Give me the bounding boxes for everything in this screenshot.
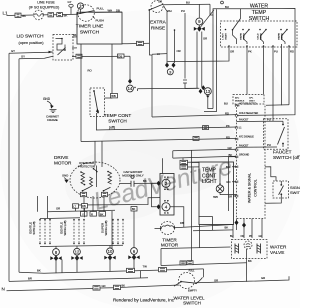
- motor bottom leads: [84, 196, 104, 212]
- wire lid out top BK: [72, 36, 77, 38]
- svg-text:GR: GR: [259, 235, 263, 238]
- svg-text:VALVE: VALVE: [270, 250, 284, 255]
- svg-text:FRAME: FRAME: [47, 118, 58, 122]
- tiny circled junction: [221, 1, 224, 4]
- connector boxes on bus: [127, 268, 135, 272]
- bank second bus: [40, 217, 80, 220]
- svg-text:MOTOR: MOTOR: [161, 243, 179, 248]
- terminal 2 (circled): [162, 179, 170, 187]
- column 6: [133, 211, 135, 248]
- water valve dashed box: [232, 240, 268, 259]
- svg-text:OR: OR: [230, 50, 234, 54]
- wire from control right: [265, 167, 276, 177]
- signal contacts: [280, 184, 282, 186]
- terminal 14 (circled): [127, 85, 134, 92]
- riser feeds: [76, 208, 113, 248]
- wire L1 to connector: [7, 14, 16, 16]
- wire from WTS OR terminal: [168, 49, 230, 62]
- svg-text:RINSE: RINSE: [282, 33, 284, 40]
- svg-text:WASH: WASH: [243, 33, 246, 40]
- svg-text:GY: GY: [11, 49, 15, 53]
- fuse F1 (dashed circle): [34, 10, 44, 20]
- svg-text:LIGHT: LIGHT: [202, 179, 217, 185]
- connector boxes stacked: [182, 158, 184, 160]
- svg-text:GR: GR: [203, 37, 207, 41]
- svg-text:BK: BK: [73, 33, 77, 37]
- long right vertical: [229, 157, 237, 211]
- boxed label on bus A: [203, 126, 209, 130]
- svg-text:BU: BU: [230, 235, 234, 238]
- watermark: [91, 152, 236, 216]
- svg-text:MODELS: MODELS: [235, 101, 245, 103]
- svg-text:ATC DISABLE: ATC DISABLE: [239, 136, 254, 139]
- svg-text:TW: TW: [143, 265, 148, 269]
- svg-text:Y: Y: [82, 212, 84, 216]
- svg-text:4: 4: [165, 205, 168, 210]
- cell 3: [259, 29, 261, 31]
- svg-text:DB: DB: [180, 221, 184, 225]
- wire second contact down WH: [164, 6, 168, 64]
- svg-text:FAUCET: FAUCET: [239, 144, 249, 147]
- bus A: [96, 127, 237, 130]
- switch blade SW1: [77, 11, 95, 15]
- svg-text:PU: PU: [267, 143, 271, 147]
- svg-text:TEMP: TEMP: [252, 10, 267, 16]
- wire PU vertical: [184, 13, 186, 79]
- T connector on PU wire: [183, 80, 199, 89]
- wire to right WH: [95, 11, 123, 13]
- svg-text:GND: GND: [62, 174, 68, 178]
- TCL leg down: [198, 225, 200, 248]
- svg-text:DB: DB: [118, 54, 122, 58]
- svg-text:COLD: COLD: [258, 33, 260, 39]
- svg-text:BK: BK: [22, 14, 26, 18]
- terminal 13 (circled): [204, 88, 211, 95]
- svg-text:12: 12: [75, 250, 80, 255]
- signal bottom wire: [265, 194, 281, 203]
- water level switch: [179, 273, 195, 289]
- svg-text:BU: BU: [224, 102, 228, 106]
- svg-text:(IF SO EQUIPPED): (IF SO EQUIPPED): [29, 6, 60, 10]
- water temp switch dashed box: [221, 21, 298, 47]
- wire bundle horizontal: [138, 87, 199, 90]
- connector box 2: [48, 13, 54, 17]
- long vertical from BU top: [212, 15, 214, 109]
- wire: [21, 14, 34, 16]
- svg-text:PU: PU: [274, 50, 278, 54]
- connector box GD: [137, 41, 144, 45]
- svg-text:GND: GND: [43, 97, 51, 101]
- connector diamond 4: [157, 204, 161, 209]
- column 8: [55, 246, 57, 248]
- wires into TCL: [188, 161, 200, 163]
- terminal ticks on left edge: [235, 104, 238, 197]
- column 12: [76, 246, 78, 248]
- stub down to 2-4 box: [162, 158, 164, 173]
- wire 13 down: [208, 95, 213, 109]
- svg-text:DB: DB: [82, 204, 86, 208]
- BR wire: [9, 278, 148, 282]
- connector diamonds: [165, 63, 169, 68]
- winding 2: [90, 177, 93, 187]
- svg-text:FAUCET: FAUCET: [273, 149, 292, 154]
- connector boxes row 2: [81, 212, 88, 217]
- svg-text:BK: BK: [37, 268, 41, 272]
- faucet stub top: [237, 120, 265, 122]
- wires GR down: [196, 32, 198, 89]
- connector box: [93, 286, 100, 290]
- svg-text:2: 2: [165, 181, 168, 186]
- feed wire BU: [210, 4, 241, 15]
- svg-text:SPIN (off): SPIN (off): [32, 221, 36, 234]
- small dashed box top: [233, 95, 264, 105]
- svg-text:SWITCH: SWITCH: [108, 119, 127, 124]
- lower stubs: [232, 166, 237, 168]
- long vertical left of TCL: [191, 150, 193, 264]
- centrifugal blades: [82, 187, 90, 191]
- svg-text:ATC: ATC: [235, 97, 240, 100]
- svg-text:BK: BK: [100, 212, 104, 216]
- lid switch contacts: [56, 39, 66, 51]
- svg-text:WARM: WARM: [240, 33, 243, 40]
- right top wire: [237, 8, 295, 115]
- faucet dashed box: [264, 119, 289, 150]
- svg-text:BU: BU: [225, 5, 229, 9]
- wire timer box to pivot line: [122, 42, 150, 45]
- svg-text:GY: GY: [21, 54, 25, 58]
- timer line switch box: [77, 12, 122, 44]
- svg-text:BK: BK: [225, 226, 229, 230]
- svg-text:13: 13: [205, 89, 210, 94]
- switch blade: [94, 91, 98, 113]
- winding 1: [81, 172, 85, 185]
- contact dots: [39, 219, 124, 245]
- inner connector boxes: [81, 192, 87, 196]
- svg-text:14: 14: [128, 86, 133, 91]
- risers into valve: [236, 219, 238, 231]
- long vertical 2: [204, 9, 217, 111]
- svg-text:PU: PU: [181, 9, 185, 13]
- connector arrows: [198, 25, 200, 26]
- svg-text:FULL: FULL: [189, 269, 196, 272]
- svg-text:(off): (off): [109, 126, 115, 130]
- lamp to control wire: [220, 193, 237, 195]
- svg-text:OR: OR: [56, 207, 60, 211]
- riser from lid wire: [105, 44, 113, 98]
- switch blade: [149, 4, 164, 10]
- bus to circled2: [152, 115, 237, 117]
- vertical OR: [174, 30, 176, 63]
- svg-text:TIMER LINE: TIMER LINE: [76, 24, 104, 30]
- low bus y263: [161, 263, 247, 266]
- wire lid bottom to 14: [72, 55, 130, 57]
- long vertical wire left 2: [18, 59, 20, 272]
- svg-text:GY: GY: [68, 0, 72, 4]
- wire down to 14: [129, 56, 131, 79]
- dotted contact columns: [40, 220, 123, 244]
- riser TW: [140, 271, 142, 278]
- connector boxes: [180, 261, 186, 265]
- connector boxes row 1: [73, 204, 79, 208]
- svg-text:HOT SELECTED: HOT SELECTED: [239, 104, 257, 106]
- svg-text:SWITCH: SWITCH: [290, 190, 300, 195]
- stub HOT SELECTED: [266, 104, 289, 106]
- bank bottom bus: [40, 245, 123, 246]
- bottom terminals: [228, 45, 230, 47]
- block box: [160, 174, 174, 216]
- flow control: [244, 241, 252, 249]
- svg-text:PUSH: PUSH: [96, 19, 104, 23]
- control dashed box: [237, 104, 266, 219]
- bus C: [173, 149, 237, 151]
- connector box WB: [111, 94, 118, 98]
- wire lid out 2: [72, 47, 77, 49]
- bus end drop: [203, 269, 205, 277]
- svg-text:BK: BK: [143, 179, 147, 183]
- riser from timer box: [80, 44, 82, 142]
- low bus y247: [161, 247, 231, 249]
- svg-text:RINSE: RINSE: [261, 33, 263, 40]
- svg-text:WB: WB: [111, 94, 116, 98]
- svg-text:WATER & SIGNAL: WATER & SIGNAL: [248, 173, 252, 203]
- svg-text:WATER: WATER: [270, 245, 287, 250]
- boxed label on bus B: [193, 136, 199, 140]
- terminal 9 (circled): [196, 18, 203, 25]
- svg-text:WASH (off): WASH (off): [63, 220, 67, 235]
- svg-text:EMPTY: EMPTY: [188, 289, 197, 293]
- wire: [77, 198, 160, 205]
- svg-text:TEMP CONT: TEMP CONT: [104, 113, 132, 118]
- svg-text:L1: L1: [3, 11, 9, 16]
- svg-text:(open position): (open position): [18, 41, 44, 45]
- svg-text:1 HOT: 1 HOT: [223, 33, 225, 40]
- svg-text:EXTRA: EXTRA: [150, 20, 167, 25]
- svg-text:RD: RD: [290, 50, 294, 54]
- timer motor dashed: [160, 222, 174, 235]
- svg-text:WARM: WARM: [278, 33, 281, 40]
- svg-text:LID SWITCH: LID SWITCH: [16, 34, 43, 39]
- connector box DB: [118, 54, 125, 58]
- cell 4: [280, 29, 282, 31]
- solenoid L: [235, 244, 239, 254]
- stub from pivot vertical: [152, 53, 167, 56]
- terminal 3 (circled): [167, 69, 173, 75]
- svg-text:BR: BR: [28, 277, 32, 281]
- svg-text:WASH (off): WASH (off): [104, 220, 108, 235]
- wire 4 to timer: [170, 207, 184, 227]
- svg-text:ONLY: ONLY: [249, 101, 255, 103]
- winding 3: [108, 172, 112, 185]
- connector diamond: [128, 79, 132, 84]
- svg-text:GROUND: GROUND: [239, 155, 250, 157]
- svg-text:COLD SELECTED: COLD SELECTED: [239, 113, 258, 115]
- L wire to 4: [152, 183, 157, 207]
- wire: [54, 13, 76, 16]
- svg-text:BU: BU: [226, 165, 230, 169]
- svg-text:SWITCH (off): SWITCH (off): [273, 155, 300, 160]
- connector box 3: [57, 13, 63, 17]
- svg-text:FAUCET: FAUCET: [239, 119, 249, 122]
- svg-text:GR: GR: [261, 276, 265, 280]
- wire pivot down: [149, 10, 152, 117]
- svg-text:HR5: HR5: [213, 196, 218, 199]
- connector box 1: [15, 13, 21, 17]
- wire: [43, 14, 48, 16]
- diagonal tap to BU wire: [200, 10, 214, 28]
- svg-text:N: N: [2, 286, 5, 291]
- wire to right: [164, 3, 211, 6]
- motor feeds from bus: [95, 141, 97, 187]
- svg-text:RINSE: RINSE: [151, 26, 165, 31]
- motor dashed ellipse: [70, 162, 120, 198]
- lamp L1: [216, 185, 224, 193]
- terminal 1 (circled): [77, 3, 83, 9]
- svg-text:PULL: PULL: [97, 6, 105, 10]
- timer line switch dashed outline: [78, 5, 95, 22]
- connector diamond 2: [157, 181, 161, 186]
- svg-text:MOTOR: MOTOR: [54, 161, 72, 166]
- svg-text:LINE FUSE: LINE FUSE: [37, 1, 55, 5]
- column 10: [109, 245, 111, 247]
- terminal 4 (circled): [162, 203, 170, 211]
- bank verticals: [38, 196, 48, 218]
- svg-text:SWITCH: SWITCH: [183, 300, 201, 305]
- signal dashed box: [273, 181, 289, 198]
- svg-text:WASH: WASH: [225, 33, 228, 40]
- svg-text:PK: PK: [248, 50, 252, 54]
- faucet stub bottom: [237, 146, 278, 148]
- svg-text:R: R: [91, 212, 93, 216]
- svg-text:BK: BK: [122, 283, 126, 287]
- svg-text:OR: OR: [241, 235, 245, 238]
- svg-text:TIMER: TIMER: [162, 237, 177, 242]
- svg-text:DRIVE: DRIVE: [54, 155, 68, 160]
- diamonds into 13: [201, 85, 205, 90]
- svg-text:PROTECTOR: PROTECTOR: [78, 164, 95, 168]
- solenoid R: [257, 244, 261, 254]
- faucet contacts: [272, 119, 274, 121]
- svg-text:BK: BK: [132, 207, 136, 211]
- svg-text:SWITCH: SWITCH: [80, 30, 100, 36]
- cell 2: [242, 29, 244, 31]
- bus D: [173, 156, 237, 158]
- svg-text:LT: LT: [73, 204, 76, 208]
- bus B: [81, 139, 237, 142]
- inner wires: [199, 217, 213, 231]
- svg-text:10: 10: [108, 249, 113, 254]
- svg-text:GN: GN: [102, 284, 106, 288]
- long vertical wire left 1: [8, 53, 10, 281]
- lid switch dashed box: [53, 35, 73, 61]
- capacitor C1: [120, 183, 131, 185]
- overload contact: [93, 168, 95, 170]
- connector box: [76, 54, 82, 58]
- riser to 9: [198, 4, 200, 17]
- TCL box: [199, 162, 234, 225]
- svg-text:GR: GR: [214, 278, 218, 282]
- svg-text:OR: OR: [158, 0, 162, 4]
- bank top bus: [48, 210, 116, 211]
- wire box feeds down: [92, 207, 94, 212]
- timer right wire DB: [174, 225, 233, 239]
- extra rinse dashed outline: [151, 1, 163, 13]
- svg-text:BK: BK: [248, 259, 252, 263]
- cell 1 blade: [233, 19, 241, 30]
- temp cont switch dashed box: [90, 88, 105, 117]
- svg-text:PK: PK: [249, 235, 253, 238]
- svg-text:OR: OR: [177, 49, 181, 53]
- svg-text:WH: WH: [167, 9, 172, 13]
- svg-text:CONTROL: CONTROL: [254, 179, 258, 197]
- svg-text:Rendered by LeadVenture, Inc: Rendered by LeadVenture, Inc: [113, 297, 175, 302]
- valve bottom wire: [246, 249, 248, 282]
- svg-text:BU: BU: [186, 0, 190, 4]
- BK bus: [19, 269, 204, 273]
- wire right GR: [197, 276, 289, 283]
